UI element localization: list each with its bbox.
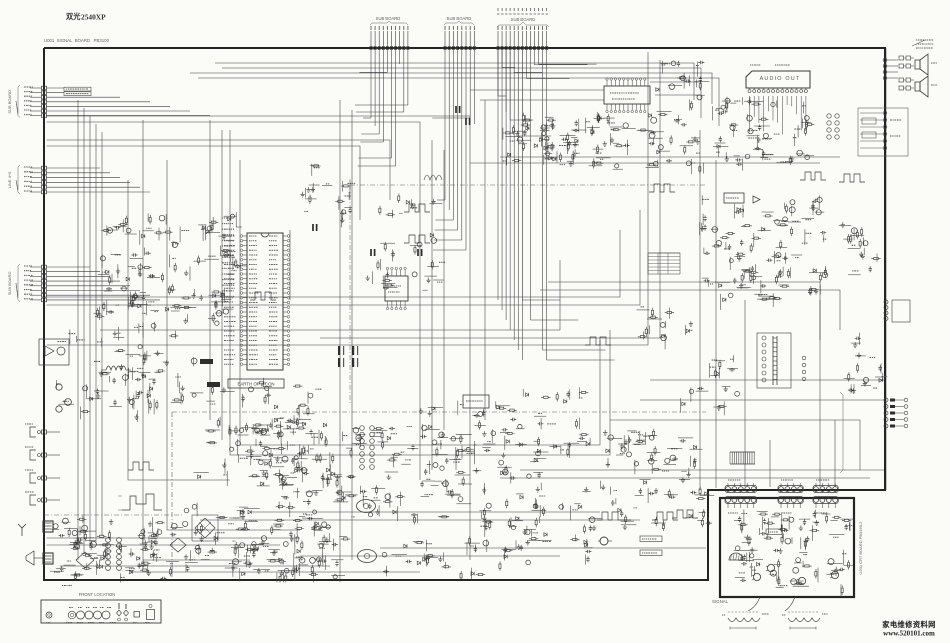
waveform pulse E <box>839 174 865 182</box>
chroma support components left of U101 <box>194 378 327 486</box>
connector P601 speaker out <box>883 58 898 80</box>
tuner TU001 <box>43 521 53 532</box>
bridge diamond D502 <box>170 538 186 552</box>
IF pin label column <box>222 218 236 302</box>
connector P002 line 4+5 <box>7 165 150 194</box>
wire feeds into audio switch IC <box>470 82 840 163</box>
transistor Q052 <box>65 399 72 406</box>
power LED indicator <box>46 612 52 618</box>
connector P003 sub board lower-left <box>7 264 160 302</box>
tone control parts right of U201 <box>656 61 710 111</box>
volume control components <box>523 387 590 458</box>
AV switch diamond with cross <box>192 515 218 541</box>
svg-text:SUB BOARD: SUB BOARD <box>511 17 536 22</box>
vertical ramp components <box>479 483 602 571</box>
waveform staircase <box>585 337 611 345</box>
front panel jog button <box>68 611 76 619</box>
svg-text:SUB BOARD: SUB BOARD <box>7 90 12 114</box>
audio switch support parts <box>516 119 586 167</box>
flyback transformer winding <box>757 333 806 388</box>
ceramic filter CF2 oval <box>358 550 377 563</box>
IF amplifier stage components <box>98 212 248 315</box>
tuner AV connector circle columns <box>106 538 122 571</box>
front panel buttons <box>77 611 111 619</box>
connector P103 main bus to sub board <box>496 26 614 360</box>
svg-text:LINE 4+5: LINE 4+5 <box>7 171 12 189</box>
electrolytic capacitor pair C123 <box>418 249 422 256</box>
AV input jacks J001-J004 <box>25 424 60 505</box>
top main sub board connector labels <box>497 8 548 14</box>
waveform pulse I <box>597 512 631 520</box>
wire bus center nested routes <box>128 100 485 590</box>
IC U101 jungle/chroma main IC <box>240 233 290 370</box>
comparator box lower-left <box>39 339 69 365</box>
coupling capacitors C601 C602 <box>899 56 914 90</box>
waveform pulse C <box>649 184 675 192</box>
brace sub board 1 <box>370 21 408 25</box>
ABL components <box>637 307 694 350</box>
crystal X401 <box>600 537 608 545</box>
sync separator cluster <box>700 195 828 310</box>
svg-text:AUDIO OUT: AUDIO OUT <box>760 76 801 82</box>
waveform pulse G <box>128 462 154 470</box>
IC U101 left pin labels <box>224 236 236 364</box>
sound IF components below top connector <box>503 113 578 166</box>
wire bus from main top connector descending <box>498 50 522 360</box>
connector P404 right edge upper <box>884 300 910 322</box>
IC U401 vertical deflection block <box>724 193 760 203</box>
svg-text:家电维修资料网: 家电维修资料网 <box>882 620 936 629</box>
waveform pulse J <box>652 512 678 520</box>
connector columns to CRT board mid <box>360 426 375 470</box>
audio jack area components <box>184 503 332 582</box>
delay line DL002 <box>207 382 220 387</box>
degauss comb <box>730 452 755 464</box>
wire bus middle horizontal routes <box>47 52 661 455</box>
mask right margin strip <box>887 330 892 395</box>
polarized capacitor bank <box>338 346 358 367</box>
sound output bottom middle <box>333 424 475 525</box>
label box H.OUT-2 <box>64 87 91 91</box>
connector P001 sub board left <box>7 85 210 118</box>
svg-text:U001 SIGNAL BOARD PB3100: U001 SIGNAL BOARD PB3100 <box>44 38 110 43</box>
luma delay components below U101 <box>248 418 341 490</box>
label E-274 <box>766 529 782 535</box>
svg-text:www.520101.com: www.520101.com <box>883 630 935 638</box>
audio out peripheral components <box>713 97 815 171</box>
transistor Q053 <box>56 406 62 412</box>
earphone jack J005 <box>26 551 34 565</box>
front panel tiny icons row <box>46 608 149 623</box>
CRT board U201 outline <box>720 498 854 597</box>
SAW filter coil <box>101 366 131 370</box>
waveform staircase lower-left <box>122 494 162 510</box>
waveform scallop 1 <box>722 612 769 630</box>
electrolytic capacitor pair C125 <box>466 118 470 125</box>
svg-text:SUB BOARD: SUB BOARD <box>376 16 401 21</box>
CRT gun symbol <box>729 553 743 560</box>
waveform sync pulse A <box>404 204 430 212</box>
speaker SP1 <box>915 54 937 75</box>
brace sub board 2 <box>444 21 474 25</box>
video detector components <box>300 164 355 228</box>
AFT coil and discriminator parts <box>419 401 549 486</box>
mask below bottom border <box>45 582 705 591</box>
waveform scallop 2 <box>782 612 828 630</box>
main signal board outline <box>44 48 885 580</box>
B+ filter parts right <box>844 333 888 394</box>
note text top right <box>912 40 933 48</box>
components around IC U301 <box>366 194 446 291</box>
antenna symbol <box>18 524 26 528</box>
svg-text:SIGNAL: SIGNAL <box>712 599 729 604</box>
bridge diamond D501 <box>76 552 94 568</box>
svg-text:SUB BOARD: SUB BOARD <box>7 272 12 296</box>
bracket right side <box>840 392 843 473</box>
connector P602 double column <box>827 114 839 139</box>
sound output right tail <box>382 536 485 580</box>
svg-text:U201 CRT BOARD PB3160-2: U201 CRT BOARD PB3160-2 <box>858 521 863 575</box>
IF secondary components row <box>93 295 233 339</box>
front panel AV jacks <box>117 603 129 621</box>
wire bus top-left nested rectangles <box>47 63 720 220</box>
audio preamp components <box>585 112 703 175</box>
IC U402 reset IC <box>463 395 489 408</box>
wire bus bottom routes <box>47 512 707 572</box>
label box H.OUT-1 <box>64 92 91 96</box>
transistor Q051 <box>56 384 62 390</box>
right border emphasis <box>885 48 887 490</box>
AV relay parts bottom-left <box>125 521 189 576</box>
connector P102 to sub board <box>432 26 476 250</box>
waveform burst <box>424 175 442 180</box>
electrolytic capacitor pair C124 <box>456 106 460 113</box>
tuner band components <box>50 514 179 588</box>
waveform sync pulse B <box>404 235 430 243</box>
EARTH OF u-CON label box <box>228 379 284 388</box>
lead wires from CRT board to waveforms <box>748 597 795 611</box>
connector P403 right edge <box>884 398 908 428</box>
wire bus right area routes <box>500 130 884 490</box>
vertical output cluster <box>681 355 740 415</box>
horizontal drive cluster <box>839 222 881 275</box>
electrolytic capacitor pair C122 <box>371 249 375 256</box>
power regulator cluster <box>601 429 715 531</box>
AV switch cluster lower-left <box>56 327 151 422</box>
CRT board RGB amplifier components <box>734 510 855 597</box>
waveform pulse D <box>800 172 826 180</box>
brace sub board 3 <box>497 22 549 27</box>
IC U301 small 8-pin IC <box>385 267 408 309</box>
video transistors Q201 Q202 Q203 <box>752 564 839 584</box>
signal routing table <box>648 253 680 274</box>
label P.FRONT below border <box>62 585 72 587</box>
svg-text:EARTH OF μ-CON: EARTH OF μ-CON <box>237 382 274 387</box>
connector rows main-to-CRT <box>725 480 838 513</box>
headphone jack block <box>858 108 908 156</box>
waveform pulse F <box>250 292 276 300</box>
svg-text:双光: 双光 <box>66 12 81 21</box>
svg-text:FRONT LOCATION: FRONT LOCATION <box>79 592 116 597</box>
bottom middle amp cluster <box>239 474 350 588</box>
label boxes SERVICE <box>640 536 662 542</box>
waveform pulse K <box>672 510 698 518</box>
ceramic filter CF1 oval <box>357 500 376 513</box>
connector P101 to sub board <box>355 26 410 166</box>
IC U201 audio switch IC top middle <box>604 78 650 113</box>
sound trap parts left-mid <box>99 350 204 415</box>
wire bus vertical left bundle <box>78 100 102 560</box>
section boundary dash-dot lines <box>44 185 706 578</box>
svg-text:SUB BOARD: SUB BOARD <box>447 16 472 21</box>
svg-text:2540XP: 2540XP <box>81 13 106 22</box>
speaker SP2 <box>915 76 937 97</box>
IC U601 AUDIO OUT power amplifier <box>746 65 810 134</box>
jack block J006 <box>43 553 53 564</box>
delay line DL001 <box>200 359 213 364</box>
front location panel outline <box>41 600 161 623</box>
front panel switches <box>134 604 155 619</box>
electrolytic capacitor pair C121 <box>313 224 317 231</box>
